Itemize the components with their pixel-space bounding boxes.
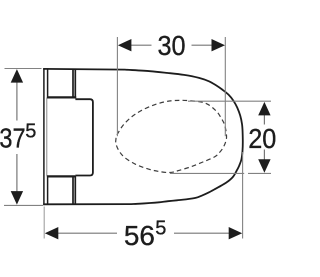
- dim 30: extension line left: [116, 37, 118, 136]
- svg-text:5: 5: [155, 217, 166, 239]
- dim 37.5: line lower segment: [16, 154, 18, 192]
- stub double line bottom: [72, 176, 74, 205]
- dim 37.5: arrow down: [11, 191, 23, 205]
- dim 20: extension line bottom: [170, 172, 244, 174]
- wc body outline: [43, 69, 243, 204]
- svg-text:20: 20: [248, 123, 276, 154]
- dim 20: arrow up: [258, 102, 270, 116]
- dim 30: extension line right: [224, 37, 226, 136]
- svg-text:56: 56: [124, 220, 155, 251]
- dim 20: line upper segment: [263, 115, 265, 125]
- svg-text:5: 5: [25, 121, 36, 143]
- dim 30: arrow right: [212, 39, 226, 51]
- svg-text:37: 37: [0, 123, 26, 154]
- dim 20: arrow down: [258, 159, 270, 173]
- ear bottom edge top-left: [47, 96, 76, 98]
- dim 20: line lower segment: [263, 150, 265, 161]
- dim 20: extension line top: [188, 100, 271, 102]
- dim 56.5: line right segment: [174, 232, 230, 234]
- dim 56.5: extension line right: [242, 152, 244, 239]
- body back inner edge upper: [47, 68, 49, 97]
- dim 30: line left segment: [131, 44, 152, 46]
- body back middle gray edge: [46, 97, 48, 176]
- dim 37.5: line upper segment: [16, 82, 18, 121]
- body back inner edge lower: [47, 176, 49, 205]
- center protrusion: [75, 99, 93, 175]
- dim 37.5: extension line bottom: [4, 204, 43, 206]
- dim 56.5: arrow right: [229, 227, 243, 239]
- dim 56.5: line left segment: [58, 232, 118, 234]
- svg-text:30: 30: [157, 30, 185, 61]
- dim 37.5: arrow up: [11, 69, 23, 83]
- dim 37.5: extension line top: [5, 68, 42, 70]
- body back outer edge: [43, 68, 45, 205]
- dim 56.5: extension line left: [43, 207, 45, 239]
- ear top edge bottom-left: [47, 175, 75, 177]
- dim 56.5: arrow left: [45, 227, 59, 239]
- dim 30: line right segment: [192, 44, 213, 46]
- dim 30: arrow left: [118, 39, 131, 51]
- inner bowl rim dashed ellipse: [116, 100, 227, 172]
- stub double line top: [72, 69, 74, 98]
